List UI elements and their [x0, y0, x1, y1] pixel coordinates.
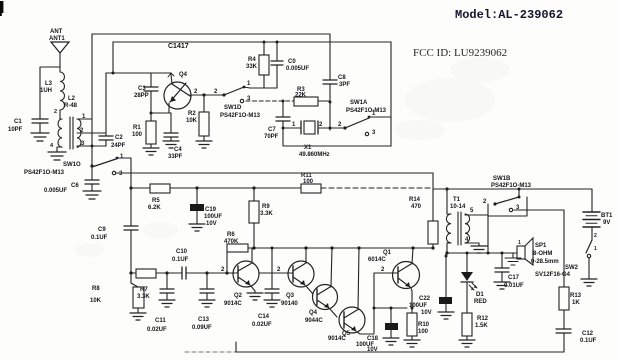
svg-text:0.005UF: 0.005UF — [286, 66, 309, 72]
wire SW1A-1 to rail drop — [369, 116, 391, 118]
switch SW1A — [343, 100, 386, 136]
resistor R2 — [186, 95, 209, 141]
svg-text:C1: C1 — [14, 119, 22, 125]
svg-text:C19: C19 — [205, 207, 217, 213]
battery wire tick labels — [594, 233, 597, 252]
wire Q4 coupling line — [106, 73, 172, 84]
label Q3 — [281, 293, 298, 307]
svg-text:470: 470 — [411, 204, 422, 210]
svg-text:2: 2 — [483, 199, 487, 205]
svg-text:0.02UF: 0.02UF — [147, 327, 167, 333]
capacitor C2 — [92, 135, 126, 149]
switch SW1O — [24, 154, 124, 177]
node rail T1 — [445, 187, 448, 190]
node speaker line T1 — [445, 251, 448, 254]
LED D1 — [461, 253, 487, 313]
svg-text:C9: C9 — [98, 227, 106, 233]
ground under C18 — [383, 338, 399, 345]
node C22 tap — [445, 255, 448, 258]
node Q4 base R2 — [202, 93, 205, 96]
svg-text:2: 2 — [381, 267, 385, 273]
svg-text:33PF: 33PF — [168, 154, 183, 160]
svg-text:100: 100 — [132, 132, 143, 138]
capacitor C8 — [323, 75, 350, 130]
node base bus — [129, 271, 132, 274]
svg-text:BT1: BT1 — [601, 213, 613, 219]
wire bottom rail dashed tail — [185, 351, 236, 353]
svg-text:R13: R13 — [570, 293, 582, 299]
node base bypass — [373, 307, 376, 310]
svg-text:L2: L2 — [68, 96, 76, 102]
antenna ANT1 — [49, 29, 69, 53]
svg-text:90140: 90140 — [281, 301, 298, 307]
crystal X1 49.860MHz — [283, 121, 345, 158]
svg-text:PS42F1O-M13: PS42F1O-M13 — [491, 183, 532, 189]
resistor R14 — [409, 173, 438, 248]
transistor Q1 — [392, 248, 420, 308]
wire T1 pin5 — [465, 214, 488, 216]
svg-text:10V: 10V — [206, 221, 217, 227]
label Q5 — [328, 331, 351, 342]
svg-text:PS42F1O-M13: PS42F1O-M13 — [24, 170, 65, 176]
wire L3 to L2 — [59, 110, 61, 119]
switch SW1D — [220, 81, 261, 119]
svg-text:SP1: SP1 — [535, 243, 547, 249]
svg-text:Model:AL-239062: Model:AL-239062 — [455, 8, 563, 22]
svg-text:0.1UF: 0.1UF — [172, 257, 189, 263]
ground under C22 — [438, 312, 454, 319]
wire supply rail right — [433, 188, 592, 190]
svg-text:10K: 10K — [186, 118, 198, 124]
capacitor C11 — [147, 273, 174, 333]
node C13 — [205, 271, 208, 274]
svg-text:1: 1 — [594, 246, 597, 252]
svg-text:6.2K: 6.2K — [148, 205, 161, 211]
svg-text:1: 1 — [120, 154, 124, 160]
svg-text:ANT: ANT — [50, 29, 63, 35]
svg-text:2: 2 — [221, 267, 225, 273]
wire SW1O-1 to R5 bus — [117, 158, 131, 226]
wire Q4 emitter node — [151, 112, 171, 114]
node D1 tap — [466, 252, 469, 255]
switch SW1B — [483, 176, 532, 216]
svg-text:C12: C12 — [582, 331, 594, 337]
capacitor C4 — [164, 113, 183, 160]
transistor Q2 — [233, 248, 259, 293]
svg-text:24PF: 24PF — [111, 143, 126, 149]
corner scan mark — [0, 1, 3, 16]
ground under R8 — [130, 313, 146, 320]
svg-text:70PF: 70PF — [264, 134, 279, 140]
resistor R4 — [246, 41, 269, 89]
wire C2 branch vertical — [105, 73, 107, 136]
svg-text:0.1UF: 0.1UF — [91, 235, 108, 241]
svg-text:0-28.5mm: 0-28.5mm — [531, 259, 559, 265]
svg-text:R4: R4 — [248, 57, 256, 63]
wire Q2 to Q3 — [259, 272, 288, 274]
svg-text:2: 2 — [594, 233, 597, 239]
resistor R3 — [294, 87, 330, 106]
svg-text:100: 100 — [418, 329, 429, 335]
svg-text:28PP: 28PP — [134, 93, 149, 99]
svg-text:C6: C6 — [71, 183, 79, 189]
wire antenna to L3 — [59, 53, 61, 72]
wire SW1B common down to speaker line — [487, 216, 489, 253]
svg-text:1: 1 — [247, 81, 251, 87]
svg-text:Q3: Q3 — [286, 293, 295, 299]
svg-text:4: 4 — [50, 143, 54, 149]
node C14 top — [271, 247, 274, 250]
resistor R13 — [559, 287, 582, 329]
speaker SP1 — [517, 238, 559, 265]
battery BT1 — [583, 189, 613, 240]
svg-text:5: 5 — [470, 208, 474, 214]
scan smudge artifacts — [76, 58, 510, 257]
wire top rail A — [92, 33, 330, 35]
svg-text:SW1O: SW1O — [63, 162, 81, 168]
svg-text:C13: C13 — [198, 317, 210, 323]
wire T1 primary bottom — [447, 243, 451, 253]
svg-text:1UH: 1UH — [40, 88, 52, 94]
ground under C11 — [159, 300, 175, 307]
inductor L3 — [40, 72, 65, 110]
svg-text:C1417: C1417 — [168, 43, 189, 50]
node R6 base tap — [225, 271, 228, 274]
svg-text:100UF: 100UF — [204, 214, 222, 220]
svg-text:R5: R5 — [152, 198, 160, 204]
node emitter junction — [150, 112, 153, 115]
svg-text:C0: C0 — [288, 59, 296, 65]
svg-text:C2: C2 — [115, 135, 123, 141]
node crystal left — [282, 127, 285, 130]
capacitor C13 — [192, 273, 214, 331]
ground under R1 — [143, 148, 159, 155]
node R3 left — [282, 100, 285, 103]
label Q4 with arrow — [168, 72, 188, 78]
svg-text:3: 3 — [119, 171, 123, 177]
svg-text:0.09UF: 0.09UF — [192, 325, 212, 331]
svg-text:3.3K: 3.3K — [260, 211, 273, 217]
svg-text:PS42F1O-M13: PS42F1O-M13 — [220, 113, 261, 119]
wire SW1O-3 long line to R14 — [116, 172, 433, 174]
svg-text:10V: 10V — [421, 310, 432, 316]
svg-text:2: 2 — [338, 122, 342, 128]
svg-text:2: 2 — [54, 109, 57, 115]
svg-text:1K: 1K — [572, 300, 580, 306]
resistor R1 — [132, 113, 156, 148]
svg-text:2: 2 — [214, 89, 218, 95]
wire T1 primary top — [447, 189, 451, 214]
transformer T1 — [446, 197, 469, 245]
node R14 bottom — [431, 246, 434, 249]
capacitor C7 — [264, 101, 290, 146]
svg-text:3: 3 — [372, 130, 376, 136]
svg-text:9014C: 9014C — [224, 301, 242, 307]
wire base line — [131, 272, 233, 274]
resistor R10 — [407, 308, 430, 340]
capacitor C18 electrolytic — [356, 308, 398, 353]
svg-text:R12: R12 — [477, 316, 489, 322]
svg-text:1.5K: 1.5K — [475, 323, 488, 329]
ground under C6 — [83, 191, 101, 199]
node rail R9 — [252, 186, 255, 189]
svg-text:33K: 33K — [246, 64, 258, 70]
svg-text:R10: R10 — [418, 322, 430, 328]
svg-text:ANT1: ANT1 — [49, 36, 65, 42]
node C11 — [165, 271, 168, 274]
svg-text:2: 2 — [194, 89, 198, 95]
svg-text:0.1UF: 0.1UF — [580, 338, 597, 344]
wire SW1D-1 to R4 node — [244, 87, 277, 88]
wire SW1D-3 dashed to R3 — [246, 100, 294, 102]
transistor Q3 — [288, 248, 314, 294]
svg-text:1: 1 — [518, 240, 521, 246]
wire rail B right drop — [390, 42, 392, 146]
svg-text:T1: T1 — [453, 197, 461, 203]
ground under L2 — [48, 152, 66, 160]
svg-text:SW1D: SW1D — [224, 105, 242, 111]
node Q1 emitter R10 — [411, 307, 414, 310]
node Q5 collector — [357, 246, 360, 249]
ground under R12 — [459, 340, 475, 347]
ground under T1 pin4 — [471, 246, 487, 253]
label Q4 audio — [305, 310, 323, 324]
resistor R6 — [224, 232, 254, 273]
resistor R9 — [249, 188, 273, 248]
svg-text:2: 2 — [277, 267, 281, 273]
capacitor C12 — [556, 329, 597, 352]
capacitor C1 — [8, 119, 48, 133]
wire T1 pin4 — [465, 243, 479, 246]
capacitor C6 — [44, 166, 99, 194]
wire Q1 base branch — [374, 273, 392, 333]
node L2 pin3 junction — [91, 145, 94, 148]
svg-text:1: 1 — [292, 122, 296, 128]
svg-text:22K: 22K — [295, 93, 307, 99]
node C8 line at crystal wire — [329, 127, 332, 130]
svg-text:R-48: R-48 — [64, 103, 78, 109]
svg-text:9044C: 9044C — [305, 318, 323, 324]
svg-text:0.005UF: 0.005UF — [44, 188, 67, 194]
capacitor C9 — [91, 226, 138, 273]
svg-text:SV12F16-G4: SV12F16-G4 — [535, 272, 571, 278]
capacitor C3 — [134, 73, 158, 113]
ground under C14 — [264, 300, 280, 307]
node Q4 collector — [330, 246, 333, 249]
L2 pin 3 — [77, 141, 92, 147]
wire supply rail left — [131, 187, 301, 189]
ground under Q2 emitter — [247, 293, 263, 300]
node rail C19 — [195, 186, 198, 189]
svg-text:49.860MHz: 49.860MHz — [299, 152, 330, 158]
capacitor C0 — [271, 41, 309, 89]
wire speaker feed line — [447, 252, 517, 254]
svg-text:2: 2 — [319, 122, 323, 128]
wire bottom rail — [236, 342, 564, 352]
ground at speaker — [505, 253, 521, 265]
switch SW2 — [535, 240, 592, 279]
svg-text:C7: C7 — [268, 127, 276, 133]
node rail B drop — [112, 72, 115, 75]
resistor R11 — [301, 173, 321, 193]
svg-text:C8: C8 — [338, 75, 346, 81]
svg-text:Q4: Q4 — [309, 310, 318, 316]
svg-text:10K: 10K — [90, 298, 102, 304]
svg-text:R1: R1 — [133, 125, 141, 131]
svg-text:6014C: 6014C — [368, 257, 386, 263]
ground under R10 — [404, 340, 420, 347]
wire rail A right drop — [329, 34, 331, 80]
wire top rail B — [113, 41, 391, 43]
label Q2 — [224, 293, 243, 307]
svg-text:PS42F1O-M13: PS42F1O-M13 — [346, 108, 387, 114]
svg-text:9V: 9V — [603, 220, 610, 226]
label Q1 — [368, 250, 392, 263]
node Q2 collector — [252, 246, 255, 249]
svg-text:Q4: Q4 — [179, 72, 188, 78]
svg-text:0.02UF: 0.02UF — [252, 322, 272, 328]
capacitor C17 — [495, 252, 524, 290]
svg-text:Q2: Q2 — [234, 293, 243, 299]
svg-text:R14: R14 — [409, 197, 421, 203]
wire SW1B-3 to R13 — [514, 210, 564, 287]
svg-text:R2: R2 — [188, 111, 196, 117]
node C8 line at R3 — [329, 101, 332, 104]
transistor Q4 — [164, 82, 191, 113]
svg-text:100UF: 100UF — [409, 303, 427, 309]
node speaker line SW1B — [487, 252, 490, 255]
resistor R7 — [136, 269, 156, 300]
capacitor C14 — [252, 248, 279, 328]
ground under C1 — [31, 133, 49, 141]
node C18 tap — [390, 307, 393, 310]
svg-text:SW1A: SW1A — [350, 100, 368, 106]
transistor Q4 audio — [313, 248, 338, 317]
wire crystal bottom loop — [283, 145, 391, 147]
capacitor C19 electrolytic — [190, 188, 222, 227]
resistor R5 — [148, 184, 170, 211]
wire base bypass branch — [374, 307, 407, 309]
svg-text:R9: R9 — [262, 204, 270, 210]
svg-text:3PF: 3PF — [339, 82, 350, 88]
transformer L2 R-48 — [54, 96, 81, 149]
resistor R12 — [462, 313, 489, 340]
wire rail dashed to R14 — [321, 187, 433, 189]
node Q1 collector — [411, 246, 414, 249]
wire collector line — [254, 247, 433, 249]
ground under C17 — [494, 282, 510, 289]
svg-text:RED: RED — [474, 299, 487, 305]
capacitor C22 electrolytic — [409, 253, 452, 316]
L2 pin 4 wire — [50, 143, 62, 152]
ground under R2 — [196, 141, 212, 148]
svg-text:SW1B: SW1B — [493, 176, 511, 182]
svg-text:FCC ID: LU9239062: FCC ID: LU9239062 — [413, 47, 507, 59]
resistor R8 — [90, 273, 144, 313]
L2 pin 2 — [77, 128, 106, 134]
svg-text:C4: C4 — [174, 147, 182, 153]
node Q3 collector — [304, 246, 307, 249]
wire left vertical bus — [91, 34, 93, 166]
ground under C4 — [163, 141, 179, 148]
svg-text:C22: C22 — [419, 296, 431, 302]
wire antenna node to C1 — [40, 67, 60, 119]
wire rail B drop to Q4 line — [112, 42, 114, 73]
ground under C13 — [199, 300, 215, 307]
svg-text:C17: C17 — [508, 275, 520, 281]
svg-text:10PF: 10PF — [8, 127, 23, 133]
ground under SW2 — [581, 279, 597, 286]
node rail at bus — [129, 186, 132, 189]
svg-text:L3: L3 — [45, 81, 53, 87]
svg-text:9014C: 9014C — [328, 336, 346, 342]
wire Q4 base to SW1D — [190, 94, 224, 96]
svg-text:C11: C11 — [155, 318, 166, 324]
L2 pin 1 — [77, 114, 92, 120]
transistor Q5 — [339, 248, 374, 334]
svg-text:D1: D1 — [476, 292, 484, 298]
capacitor C10 — [172, 249, 189, 279]
ground under C19 — [189, 224, 205, 231]
svg-text:C10: C10 — [176, 249, 188, 255]
svg-text:8-OHM: 8-OHM — [533, 251, 552, 257]
svg-text:R8: R8 — [92, 286, 100, 292]
svg-text:C14: C14 — [258, 314, 270, 320]
svg-text:Q1: Q1 — [383, 250, 392, 256]
svg-text:R6: R6 — [227, 232, 235, 238]
svg-text:10-14: 10-14 — [450, 204, 466, 210]
svg-text:SW2: SW2 — [565, 265, 579, 271]
